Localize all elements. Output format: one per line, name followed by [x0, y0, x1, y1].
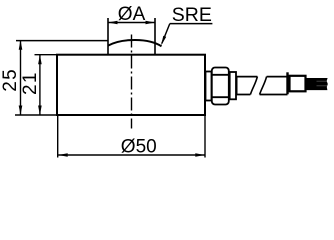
svg-text:SRE: SRE: [172, 4, 212, 26]
load button left side / OA extension line: [107, 18, 109, 55]
load button right side / OA extension line: [154, 18, 156, 55]
svg-text:ØA: ØA: [118, 4, 146, 25]
dim 25 extension line (dome top level): [16, 40, 108, 42]
wire: top line extension (21 dim extension): [35, 54, 58, 56]
arrow OA left: [108, 21, 118, 25]
centerline: [131, 35, 133, 129]
dimension OA line: [108, 22, 155, 24]
cable gland hex nut: [212, 68, 229, 105]
cable sleeve first part outline: [237, 77, 258, 95]
dim O50 left extension line: [57, 116, 59, 158]
arrow 21 bottom: [38, 106, 42, 116]
cable strand streak 1: [317, 80, 328, 82]
wire: base line extension (25/21 dim extension): [15, 114, 57, 116]
arrow OA right: [146, 21, 156, 25]
load button dome: [108, 40, 162, 46]
dim 25 line: [20, 40, 22, 115]
arrow O50 left: [58, 153, 67, 157]
SRE underline: [170, 23, 213, 25]
cable: [306, 78, 328, 90]
svg-text:Ø50: Ø50: [121, 136, 157, 157]
cable strand streak 2: [317, 85, 328, 87]
arrow 21 top: [38, 55, 42, 64]
cable sleeve second part outline: [260, 77, 288, 95]
svg-text:25: 25: [0, 68, 21, 92]
dim O50 line: [58, 154, 205, 156]
SRE leader arrowhead: [161, 36, 166, 46]
dim O50 right extension line: [204, 116, 206, 158]
cable boot: [290, 76, 306, 92]
cable sleeve end flange: [286, 72, 288, 94]
cable break line 2: [260, 77, 267, 95]
cable break line 1: [250, 77, 257, 95]
SRE leader line: [162, 24, 170, 44]
cable gland collar: [230, 72, 236, 99]
dim 21 line: [39, 55, 41, 115]
arrow 25 top: [19, 40, 23, 50]
svg-text:21: 21: [20, 71, 41, 95]
arrow 25 bottom: [19, 106, 23, 116]
load cell body (cylinder side view): [57, 55, 205, 115]
hex nut facet line top: [212, 74, 229, 76]
arrow O50 right: [195, 153, 205, 157]
cable gland washer: [206, 72, 212, 101]
hex nut facet line bottom: [212, 96, 229, 98]
